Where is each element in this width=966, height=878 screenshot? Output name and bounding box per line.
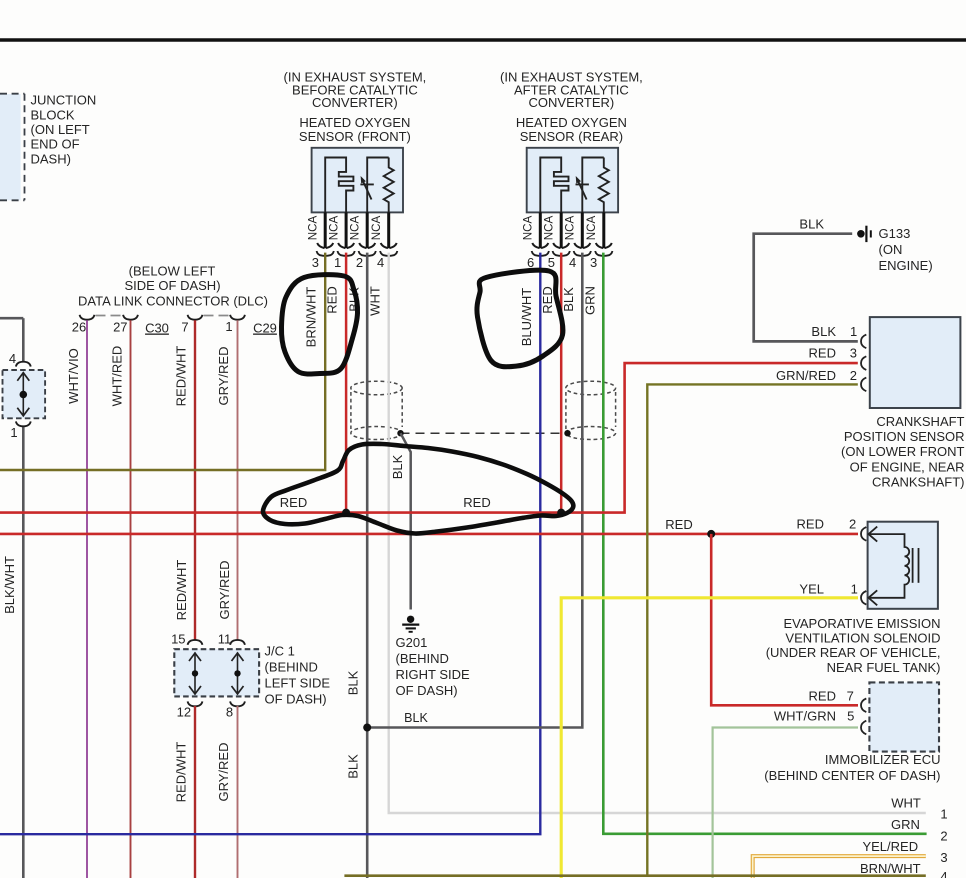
EVAP solenoid box [868,522,938,609]
heated oxygen sensor (rear) box [527,148,618,213]
junction dot RED bus / front pin1 [342,509,350,517]
svg-text:5: 5 [548,255,555,270]
svg-text:DASH): DASH) [31,151,71,166]
svg-text:NCA: NCA [522,215,535,240]
connector end (front pin) [381,243,397,248]
sensor pin stub 3 (front) [366,212,369,248]
wire YEL/RED [753,856,926,878]
wire RED rear pin5 [560,253,563,513]
sensor pin stub 2 (rear) [560,212,563,248]
shield drain wire BLK to G201 [401,433,411,609]
junction dot BLK [363,724,371,732]
crank connector pin 3 [861,356,866,370]
EVAP coil core bars [912,548,914,583]
svg-text:DATA LINK CONNECTOR (DLC): DATA LINK CONNECTOR (DLC) [78,294,268,309]
junction dot RED bus2 [707,530,715,538]
connector C29 half, pin 1 [230,315,245,320]
connector end (rear pin) [574,243,590,248]
connector C29 half, pin 7 [188,315,203,320]
J/C 1 upper connector, pin 15 [188,640,203,645]
svg-text:SENSOR (REAR): SENSOR (REAR) [520,129,623,144]
svg-text:BLK: BLK [346,670,361,695]
heater element (rear) [540,158,568,213]
resistor zigzag (front) [384,158,394,213]
J/C 1 lower connector, pin 12 [188,701,203,706]
svg-text:C30: C30 [145,321,169,336]
svg-text:SIDE OF DASH): SIDE OF DASH) [124,278,220,293]
svg-text:RED/WHT: RED/WHT [174,560,189,621]
svg-text:JUNCTION: JUNCTION [31,93,97,108]
svg-text:BLK: BLK [404,711,428,725]
connector half above, pin 4 [16,362,31,367]
svg-text:3: 3 [312,255,319,270]
svg-text:NCA: NCA [585,215,598,240]
svg-text:15: 15 [171,632,185,647]
heater element (front) [325,158,353,213]
sensor pin stub 3 (rear) [581,212,584,248]
svg-text:BLK: BLK [799,217,824,232]
svg-text:(BELOW LEFT: (BELOW LEFT [129,264,216,279]
svg-text:6: 6 [527,255,534,270]
svg-text:NCA: NCA [306,215,319,240]
page top border line [0,38,966,42]
svg-text:RED: RED [540,286,555,313]
svg-text:WHT: WHT [891,796,921,811]
svg-text:2: 2 [356,255,363,270]
wire BLK/WHT vertical to bottom [22,427,25,878]
svg-text:BLK: BLK [561,287,576,312]
svg-text:(ON: (ON [879,242,903,257]
svg-text:GRY/RED: GRY/RED [216,743,231,802]
svg-text:(BEHIND: (BEHIND [265,660,318,675]
svg-text:ENGINE): ENGINE) [879,258,933,273]
J/C 1 lower connector, pin 8 [230,701,245,706]
wire WHT/GRN from immobilizer pin5 [713,728,858,878]
svg-text:RED: RED [325,286,340,313]
J/C 1 dot left [192,670,198,676]
svg-text:RED: RED [797,517,824,532]
wire BLK/WHT vertical upper [22,318,25,362]
wire BLK/WHT from junction block, horizontal [0,317,23,320]
svg-text:G133: G133 [879,226,911,241]
wire GRN rear pin3 [603,253,926,834]
connector C30 half, pin 26 [80,315,95,320]
svg-text:NCA: NCA [348,215,361,240]
J/C 1 box [174,649,259,696]
wire BLK rear pin4 joins front BLK [368,253,582,728]
pass-through pin arrow [22,372,24,416]
shield node left [397,430,403,436]
svg-text:7: 7 [847,689,854,704]
svg-text:(UNDER REAR OF VEHICLE,: (UNDER REAR OF VEHICLE, [766,645,941,660]
svg-text:GRN: GRN [582,286,597,315]
svg-text:YEL: YEL [799,582,824,597]
svg-text:WHT: WHT [367,286,382,316]
svg-text:GRY/RED: GRY/RED [216,347,231,406]
svg-text:CRANKSHAFT): CRANKSHAFT) [872,475,964,490]
svg-text:3: 3 [850,346,857,361]
svg-text:1: 1 [225,319,232,334]
svg-text:BRN/WHT: BRN/WHT [304,287,319,348]
wire BLK front pin2 [366,253,369,878]
svg-text:BLU/WHT: BLU/WHT [519,288,534,347]
hand-drawn loop annotation around RED bus [263,444,573,534]
svg-text:8: 8 [226,704,233,719]
svg-text:4: 4 [569,255,576,270]
svg-text:2: 2 [940,829,947,844]
svg-text:(BEHIND: (BEHIND [396,651,449,666]
svg-text:RED/WHT: RED/WHT [174,742,189,803]
svg-text:3: 3 [940,850,947,865]
junction block box fill [0,94,21,200]
svg-text:2: 2 [849,517,856,532]
svg-text:RIGHT SIDE: RIGHT SIDE [396,667,470,682]
wire GRY/RED pin 1 upper [237,320,239,639]
dashed shield link wire [401,432,568,434]
svg-text:2: 2 [850,368,857,383]
svg-text:NCA: NCA [542,215,555,240]
svg-text:4: 4 [377,255,384,270]
svg-text:OF DASH): OF DASH) [265,692,327,707]
svg-text:C29: C29 [253,321,277,336]
svg-text:LEFT SIDE: LEFT SIDE [265,676,331,691]
svg-text:11: 11 [218,632,232,647]
J/C 1 pin arrow right [237,653,239,695]
crank connector pin 2 [861,378,866,392]
immobilizer ECU box [869,682,939,751]
connector end (rear pin) [553,243,569,248]
svg-text:4: 4 [9,351,16,366]
connector end (rear pin) [532,243,548,248]
svg-text:J/C 1: J/C 1 [265,644,295,659]
immobilizer connector pin 7 [861,699,866,713]
svg-text:1: 1 [334,255,341,270]
wire YEL to EVAP pin1 [561,598,858,878]
svg-text:(ON LOWER FRONT: (ON LOWER FRONT [841,444,965,459]
immobilizer connector pin 5 [861,721,866,735]
svg-text:VENTILATION SOLENOID: VENTILATION SOLENOID [785,631,940,646]
wire GRN/RED to crank pin2 [647,384,858,876]
wire GRY/RED pin 8 lower [237,706,239,878]
wire BRN/WHT bottom row [344,874,925,877]
svg-text:CONVERTER): CONVERTER) [529,95,615,110]
svg-text:OF DASH): OF DASH) [396,683,458,698]
shield (rear sensor wires), dashed [566,381,616,395]
svg-text:CONVERTER): CONVERTER) [312,95,398,110]
svg-text:4: 4 [940,869,947,878]
svg-text:26: 26 [72,320,86,335]
svg-text:IMMOBILIZER ECU: IMMOBILIZER ECU [825,752,941,767]
svg-text:BLOCK: BLOCK [31,107,75,122]
svg-text:CRANKSHAFT: CRANKSHAFT [876,414,964,429]
connector end (front pin) [338,243,354,248]
wire WHT/RED pin 27 [130,320,132,878]
svg-text:NEAR FUEL TANK): NEAR FUEL TANK) [827,660,941,675]
sensor pin stub 4 (rear) [602,212,605,248]
sensing element with variable arrow (rear) [576,158,604,213]
svg-text:27: 27 [113,320,127,335]
svg-text:WHT/VIO: WHT/VIO [66,348,81,404]
svg-text:POSITION SENSOR: POSITION SENSOR [844,429,965,444]
svg-text:7: 7 [181,320,188,335]
svg-text:END OF: END OF [31,137,80,152]
wire BLK to G133 and crank pin1 [754,234,858,342]
svg-text:1: 1 [851,582,858,597]
sensor pin stub 4 (front) [387,212,390,248]
wire WHT front pin4 [389,253,926,813]
svg-text:5: 5 [847,709,854,724]
EVAP connector pin 2 [861,527,866,541]
svg-text:OF ENGINE, NEAR: OF ENGINE, NEAR [850,459,965,474]
svg-text:1: 1 [850,324,857,339]
svg-text:NCA: NCA [327,215,340,240]
sensing element with variable arrow (front) [360,158,388,213]
crankshaft position sensor box [870,317,961,408]
svg-text:RED: RED [280,495,307,510]
sensor pin stub 2 (front) [345,212,348,248]
svg-text:RED: RED [665,517,692,532]
svg-text:YEL/RED: YEL/RED [862,839,918,854]
svg-text:G201: G201 [396,635,428,650]
J/C 1 pin arrow left [194,653,196,695]
svg-text:BLK: BLK [346,754,361,779]
svg-text:RED: RED [463,495,490,510]
svg-text:1: 1 [10,425,17,440]
sensor pin stub 1 (rear) [539,212,542,248]
junction block dashed border [0,94,25,201]
svg-text:RED/WHT: RED/WHT [174,346,189,407]
wire WHT/VIO pin 26 [86,320,88,878]
shield (front sensor wires), dashed [351,381,402,395]
wire BLU/WHT rear pin6 [0,253,540,835]
hand-drawn circle annotation around BLU/WHT [477,270,563,367]
junction dot RED bus / rear pin5 [557,509,565,517]
svg-text:BLK: BLK [390,454,405,479]
junction block pass-through connector box [3,370,46,418]
svg-text:GRY/RED: GRY/RED [217,561,232,620]
EVAP coil symbol [869,527,910,606]
wire RED bus 2 to EVAP solenoid pin2 [0,533,858,536]
svg-text:RED: RED [809,689,836,704]
svg-text:RED: RED [809,346,836,361]
ground G201 [407,616,414,623]
svg-text:3: 3 [590,255,597,270]
sensor pin stub 1 (front) [324,212,327,248]
svg-text:1: 1 [940,807,947,822]
heated oxygen sensor (front) box [312,148,403,213]
resistor zigzag (rear) [599,158,609,213]
hand-drawn circle annotation around BRN/WHT [281,275,357,374]
connector end (rear pin) [596,243,612,248]
svg-text:BLK/WHT: BLK/WHT [2,556,17,614]
svg-text:GRN/RED: GRN/RED [776,368,836,383]
wire RED bus to crankshaft sensor pin3 [0,363,858,512]
connector C30 half, pin 27 [123,315,138,320]
svg-text:GRN: GRN [891,817,920,832]
connector C30 dashed bridge [96,315,123,317]
svg-text:NCA: NCA [564,215,577,240]
wire RED/WHT pin 12 lower [194,706,196,878]
svg-text:WHT/RED: WHT/RED [110,346,125,407]
EVAP connector pin 1 [861,591,866,605]
pass-through junction dot [20,391,28,399]
svg-text:SENSOR (FRONT): SENSOR (FRONT) [299,129,411,144]
wire RED front pin1 [345,253,348,513]
wire BRN/WHT front pin3 [0,253,325,470]
svg-text:BRN/WHT: BRN/WHT [860,861,921,876]
connector end (front pin) [359,243,375,248]
svg-text:EVAPORATIVE EMISSION: EVAPORATIVE EMISSION [784,616,941,631]
J/C 1 upper connector, pin 11 [230,640,245,645]
connector C29 dashed bridge [204,315,230,317]
crank connector pin 1 [861,335,866,349]
J/C 1 dot right [234,670,240,676]
svg-text:12: 12 [177,704,191,719]
ground G133 [857,230,865,238]
wire RED/WHT pin 7 upper [194,320,196,639]
svg-text:(ON LEFT: (ON LEFT [31,122,90,137]
shield node right [564,430,570,436]
svg-text:BLK: BLK [811,324,836,339]
svg-text:(BEHIND CENTER OF DASH): (BEHIND CENTER OF DASH) [764,768,940,783]
svg-text:NCA: NCA [370,215,383,240]
svg-text:WHT/GRN: WHT/GRN [774,709,836,724]
connector half below, pin 1 [16,421,31,426]
wire RED branch to immobilizer pin7 [711,534,858,705]
connector end (front pin) [317,243,333,248]
